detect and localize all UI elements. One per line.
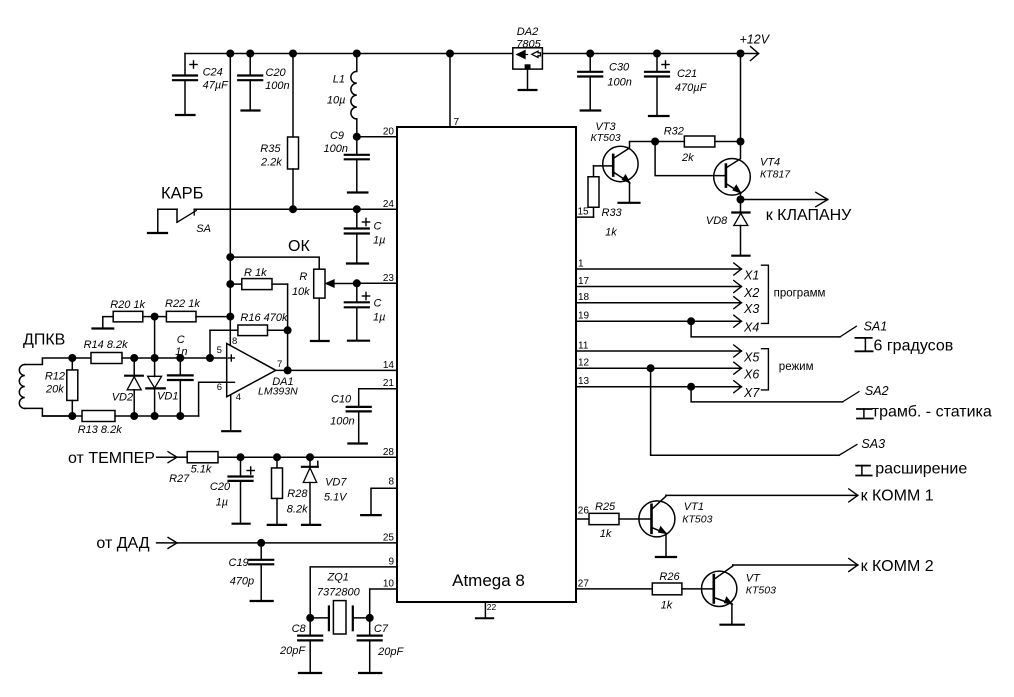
- resistor R12 20k: [45, 358, 78, 416]
- svg-text:5.1k: 5.1k: [191, 464, 212, 476]
- wire pin 22: [484, 602, 486, 618]
- svg-text:1µ: 1µ: [373, 312, 385, 324]
- capacitor C 1µ pin23 lower: [348, 298, 385, 341]
- svg-text:C20: C20: [210, 481, 231, 493]
- switch SA2: [687, 383, 888, 419]
- label +12V: [740, 33, 771, 61]
- svg-text:25: 25: [383, 533, 395, 544]
- label от ДАД: [96, 535, 149, 552]
- ground pin 8: [361, 514, 381, 516]
- resistor R14 8.2k: [72, 339, 227, 364]
- svg-text:C30: C30: [609, 62, 630, 74]
- switch SA3: [647, 364, 885, 475]
- label X5: [743, 351, 759, 365]
- svg-text:R28: R28: [287, 488, 308, 500]
- svg-text:X2: X2: [743, 286, 759, 300]
- svg-text:C9: C9: [330, 130, 344, 142]
- svg-text:100n: 100n: [324, 143, 348, 155]
- svg-text:X4: X4: [743, 321, 759, 335]
- svg-text:18: 18: [578, 292, 590, 303]
- pin 19 label: [578, 311, 590, 322]
- resistor R25 1k: [589, 501, 652, 540]
- svg-text:R26: R26: [659, 571, 680, 583]
- diode VD1: [146, 376, 178, 416]
- wire pin 9: [310, 567, 397, 618]
- svg-text:от ДАД: от ДАД: [96, 535, 149, 552]
- bracket программ: [762, 265, 769, 323]
- switch SA1: [687, 317, 887, 351]
- svg-text:13: 13: [578, 376, 590, 387]
- svg-text:режим: режим: [779, 361, 814, 373]
- svg-text:C24: C24: [203, 66, 223, 78]
- resistor R27 5.1k: [169, 452, 218, 485]
- node R12 top: [68, 354, 76, 362]
- svg-text:2.2k: 2.2k: [260, 157, 282, 169]
- pin 24 label: [383, 199, 395, 210]
- node SA line C24v: [353, 205, 361, 213]
- pin 20 label: [383, 127, 395, 138]
- svg-text:100n: 100n: [265, 80, 289, 92]
- svg-text:VT4: VT4: [760, 157, 780, 169]
- crystal ZQ1 7372800: [306, 572, 374, 635]
- svg-text:+12V: +12V: [740, 33, 771, 47]
- svg-text:к КОММ 2: к КОММ 2: [861, 558, 934, 575]
- transistor VT KT503: [702, 565, 777, 624]
- svg-text:X7: X7: [743, 386, 760, 400]
- svg-text:VD7: VD7: [325, 477, 347, 489]
- svg-text:20k: 20k: [45, 384, 64, 396]
- regulator DA2 7805: [513, 26, 543, 69]
- svg-text:28: 28: [383, 447, 395, 458]
- node VD1 top: [151, 354, 159, 362]
- svg-text:Atmega 8: Atmega 8: [452, 571, 525, 590]
- capacitor C21 470µF: [645, 54, 708, 117]
- svg-text:R12: R12: [45, 371, 65, 383]
- svg-text:ОК: ОК: [288, 238, 310, 255]
- pin 25 label: [383, 533, 395, 544]
- svg-text:11: 11: [578, 341, 589, 352]
- svg-text:от ТЕМПЕР: от ТЕМПЕР: [68, 450, 155, 467]
- wire pin 13 to X7: [576, 381, 741, 393]
- pin 13 label: [578, 376, 590, 387]
- resistor R22 1k: [155, 298, 231, 322]
- ground pin 22: [476, 617, 493, 619]
- svg-text:X6: X6: [743, 368, 759, 382]
- wire pin 7 Vcc: [449, 54, 451, 128]
- svg-text:1k: 1k: [605, 227, 617, 239]
- node R32 left: [651, 138, 659, 146]
- inductor L1 10µ: [327, 54, 357, 137]
- svg-text:20: 20: [383, 127, 395, 138]
- svg-text:6 градусов: 6 градусов: [874, 338, 954, 355]
- ground op-amp: [222, 430, 240, 432]
- svg-text:1k: 1k: [600, 528, 612, 540]
- label ДПКВ: [23, 332, 65, 349]
- svg-text:SA2: SA2: [865, 384, 889, 398]
- diode VD2: [112, 358, 143, 416]
- wire pin 27: [576, 588, 652, 590]
- svg-text:2k: 2k: [681, 152, 694, 164]
- svg-text:R25: R25: [595, 501, 616, 513]
- node C19 top: [257, 539, 265, 547]
- svg-text:17: 17: [578, 276, 590, 287]
- pin 28 label: [383, 447, 395, 458]
- ground VT1 emitter: [656, 556, 676, 558]
- wire to valve: [741, 192, 828, 206]
- svg-text:VT: VT: [746, 573, 761, 585]
- wire output to pin 14: [276, 369, 397, 371]
- label X7: [743, 386, 760, 400]
- svg-text:R22 1k: R22 1k: [165, 298, 200, 310]
- svg-text:КТ503: КТ503: [746, 585, 776, 597]
- svg-text:5: 5: [217, 345, 222, 356]
- svg-text:7805: 7805: [516, 38, 541, 50]
- svg-text:R33: R33: [602, 207, 623, 219]
- transistor VT3 KT503: [591, 121, 656, 202]
- op-amp DA1 LM393N: [217, 336, 299, 403]
- capacitor C9 100n: [324, 130, 369, 193]
- svg-text:8.2k: 8.2k: [287, 504, 308, 516]
- wire R20R22 down to VD1: [154, 317, 156, 376]
- resistor R32 2k: [655, 126, 740, 165]
- wire pin 1 to X1: [576, 263, 741, 275]
- wire pin 12 to X6: [576, 362, 741, 374]
- svg-text:47µF: 47µF: [203, 80, 230, 92]
- label к КОММ 1: [861, 488, 934, 505]
- svg-text:VT1: VT1: [684, 501, 704, 513]
- label расширение: [875, 461, 967, 478]
- pin 11 label: [578, 341, 589, 352]
- svg-text:12: 12: [578, 358, 590, 369]
- svg-text:SA: SA: [196, 223, 211, 235]
- wire +5V/+12V top rail: [185, 53, 759, 55]
- svg-text:24: 24: [383, 199, 395, 210]
- wire pin 11 to X5: [576, 345, 741, 357]
- node R12 bottom: [68, 412, 76, 420]
- capacitor C19 470p: [229, 543, 274, 601]
- capacitor C20 1µ: [210, 457, 254, 524]
- svg-text:10k: 10k: [292, 286, 310, 298]
- node C1n top: [176, 354, 184, 362]
- capacitor C24: [173, 54, 229, 116]
- pin 14 label: [383, 360, 395, 371]
- wire +5V vertical to op-amp: [229, 54, 231, 346]
- svg-text:КТ503: КТ503: [682, 513, 712, 525]
- ground VT emitter: [721, 624, 744, 626]
- wire pin 21: [359, 389, 397, 406]
- transistor VT4 KT817: [655, 142, 791, 200]
- resistor R26 1k: [652, 571, 714, 612]
- wire pin 19 to X4: [576, 315, 741, 327]
- svg-text:10: 10: [383, 579, 395, 590]
- svg-text:C: C: [177, 334, 185, 346]
- label режим: [779, 361, 814, 373]
- svg-text:КТ503: КТ503: [591, 132, 621, 144]
- node VD1 bottom: [151, 412, 159, 420]
- svg-text:7372800: 7372800: [317, 587, 361, 599]
- pin 9 label: [388, 556, 394, 567]
- svg-text:470µF: 470µF: [675, 82, 708, 94]
- svg-text:R14 8.2k: R14 8.2k: [84, 339, 129, 351]
- wire SA to pin 24: [194, 208, 397, 210]
- node VT4 emitter: [737, 196, 745, 204]
- resistor R16 470k: [210, 312, 288, 358]
- node VD2 bottom: [130, 412, 138, 420]
- svg-text:R13 8.2k: R13 8.2k: [78, 424, 123, 436]
- wire от ДАД: [157, 537, 397, 548]
- mcu DD1 Atmega 8: [397, 127, 576, 602]
- svg-text:C: C: [374, 298, 382, 310]
- svg-text:27: 27: [578, 578, 590, 589]
- resistor R33 1k: [576, 166, 623, 239]
- svg-text:C10: C10: [331, 394, 352, 406]
- svg-text:DA2: DA2: [517, 26, 538, 38]
- svg-text:КАРБ: КАРБ: [161, 185, 203, 203]
- label от ТЕМПЕР: [68, 450, 155, 467]
- svg-text:X5: X5: [743, 351, 759, 365]
- switch SA: [148, 209, 211, 235]
- svg-text:20pF: 20pF: [279, 645, 306, 657]
- svg-text:X3: X3: [743, 302, 759, 316]
- svg-text:1k: 1k: [661, 600, 673, 612]
- svg-text:VD8: VD8: [706, 215, 728, 227]
- wire +12V branch: [740, 54, 742, 142]
- wire to КОММ2: [733, 559, 858, 572]
- node R16 right: [284, 326, 292, 334]
- wire pin 23: [353, 279, 397, 287]
- wire -input: [199, 382, 227, 416]
- svg-text:VD2: VD2: [112, 392, 133, 404]
- label программ: [774, 288, 826, 300]
- pin 27 label: [578, 578, 590, 589]
- capacitor C10 100n: [330, 394, 371, 444]
- svg-text:100n: 100n: [607, 77, 631, 89]
- pin 23 label: [383, 273, 395, 284]
- ground VT3 emitter: [619, 202, 640, 204]
- svg-text:C19: C19: [229, 557, 249, 569]
- svg-text:1µ: 1µ: [216, 497, 228, 509]
- svg-text:7: 7: [277, 359, 282, 370]
- svg-text:1: 1: [578, 259, 584, 270]
- svg-text:470p: 470p: [230, 576, 254, 588]
- node R28 top: [273, 453, 281, 461]
- svg-text:22: 22: [487, 602, 497, 612]
- svg-text:15: 15: [578, 207, 590, 218]
- pin 18 label: [578, 292, 590, 303]
- capacitor C 1µ at pin 23: [345, 283, 370, 307]
- svg-text:VD1: VD1: [157, 391, 178, 403]
- svg-text:R20 1k: R20 1k: [110, 299, 145, 311]
- bracket режим: [762, 349, 769, 390]
- pin 7 label: [454, 117, 460, 128]
- svg-text:R 1k: R 1k: [244, 267, 267, 279]
- node R20/R22 junction: [151, 313, 159, 321]
- diode VD8: [706, 200, 750, 256]
- svg-text:к КОММ 1: к КОММ 1: [861, 488, 934, 505]
- svg-text:23: 23: [383, 273, 395, 284]
- svg-text:ДПКВ: ДПКВ: [23, 332, 65, 349]
- wire pin 20: [353, 133, 397, 141]
- svg-text:R27: R27: [169, 473, 190, 485]
- svg-text:9: 9: [388, 556, 394, 567]
- resistor R13 8.2k: [42, 411, 198, 437]
- svg-text:C21: C21: [677, 68, 697, 80]
- node rail junction pin7: [446, 50, 454, 58]
- svg-text:R32: R32: [664, 126, 684, 138]
- node SA line R35: [289, 205, 297, 213]
- label X6: [743, 368, 759, 382]
- resistor R 1k: [230, 267, 287, 290]
- svg-text:6: 6: [217, 382, 222, 393]
- zener VD7 5.1V: [302, 457, 348, 525]
- pin 1 label: [578, 259, 584, 270]
- svg-text:R16 470k: R16 470k: [240, 312, 288, 324]
- node rail junction L1: [353, 50, 361, 58]
- label к КЛАПАНУ: [766, 207, 852, 224]
- node R 1k left: [226, 280, 234, 288]
- svg-text:КТ817: КТ817: [760, 169, 791, 181]
- label трамб. - статика: [872, 404, 992, 421]
- capacitor C 1n: [168, 334, 193, 416]
- svg-text:8: 8: [388, 476, 394, 487]
- wire pin 17 to X2: [576, 281, 741, 293]
- svg-text:ZQ1: ZQ1: [327, 572, 349, 584]
- label X4: [743, 321, 759, 335]
- svg-text:программ: программ: [774, 288, 826, 300]
- pin 26 label: [578, 506, 590, 517]
- pin 8 label: [388, 476, 394, 487]
- svg-text:расширение: расширение: [875, 461, 967, 478]
- wire to КОММ1: [666, 489, 858, 502]
- node R22/R20/pin8: [226, 313, 234, 321]
- label КАРБ: [161, 185, 203, 203]
- node VD7 top: [306, 453, 314, 461]
- node rail junction C30: [586, 50, 594, 58]
- svg-text:C7: C7: [374, 623, 389, 635]
- svg-text:21: 21: [383, 378, 395, 389]
- svg-text:5.1V: 5.1V: [324, 492, 348, 504]
- label X3: [743, 302, 759, 316]
- node rail junction C21: [653, 50, 661, 58]
- capacitor C 1µ at pin 24: [345, 209, 386, 263]
- node C1n bottom: [176, 412, 184, 420]
- wire pin 26: [576, 518, 589, 520]
- svg-text:R35: R35: [260, 143, 281, 155]
- wire pin 18 to X3: [576, 297, 741, 309]
- svg-text:8: 8: [232, 336, 237, 347]
- wire R1k to output: [287, 284, 289, 370]
- svg-text:L1: L1: [333, 74, 345, 86]
- node R32 right: [737, 138, 745, 146]
- node rail junction +12V: [737, 50, 745, 58]
- svg-text:14: 14: [383, 360, 395, 371]
- capacitor C30 100n: [578, 54, 632, 111]
- node rail junction C20: [246, 50, 254, 58]
- label X2: [743, 286, 759, 300]
- svg-text:C20: C20: [266, 67, 287, 79]
- svg-text:C: C: [374, 221, 382, 233]
- pin 17 label: [578, 276, 590, 287]
- svg-text:26: 26: [578, 506, 590, 517]
- inductor ДПКВ pickup coil: [19, 358, 71, 416]
- resistor R20 1k: [93, 299, 155, 329]
- pin 21 label: [383, 378, 395, 389]
- label ОК: [288, 238, 310, 255]
- svg-text:трамб. - статика: трамб. - статика: [872, 404, 992, 421]
- node rail junction C24/SA vertical: [226, 50, 234, 58]
- svg-text:C8: C8: [292, 623, 307, 635]
- capacitor C8 20pF: [279, 618, 322, 673]
- node output junction: [284, 366, 292, 374]
- wire pin 8: [371, 488, 397, 515]
- potentiometer R 10k: [292, 269, 357, 341]
- svg-text:R: R: [299, 271, 307, 283]
- wire OK to pot: [230, 257, 319, 269]
- svg-text:1µ: 1µ: [373, 235, 385, 247]
- node rail junction R35: [289, 50, 297, 58]
- resistor R28 8.2k: [268, 457, 309, 525]
- transistor VT1 KT503: [639, 495, 713, 556]
- svg-text:100n: 100n: [330, 416, 354, 428]
- pin 12 label: [578, 358, 590, 369]
- svg-text:X1: X1: [743, 269, 759, 283]
- node VD2 top: [130, 354, 138, 362]
- pin 10 label: [383, 579, 395, 590]
- label к КОММ 2: [861, 558, 934, 575]
- resistor R35 2.2k: [260, 54, 299, 210]
- capacitor C7 20pF: [358, 618, 405, 673]
- wire от ТЕМПЕР: [157, 452, 397, 463]
- svg-text:к КЛАПАНУ: к КЛАПАНУ: [766, 207, 852, 224]
- svg-text:SA1: SA1: [864, 320, 888, 334]
- label 6 градусов: [874, 338, 954, 355]
- ground DA2: [519, 70, 537, 90]
- node OK line: [226, 253, 234, 261]
- svg-text:1n: 1n: [175, 346, 187, 358]
- pin 15 label: [578, 207, 590, 218]
- wire op-amp pin4: [230, 395, 232, 431]
- label X1: [743, 269, 759, 283]
- svg-text:19: 19: [578, 311, 590, 322]
- svg-text:4: 4: [236, 392, 241, 403]
- svg-text:SA3: SA3: [861, 437, 885, 451]
- svg-text:10µ: 10µ: [327, 95, 346, 107]
- ground VD8: [732, 255, 749, 257]
- pin 22 label: [487, 602, 497, 612]
- svg-text:20pF: 20pF: [377, 646, 404, 658]
- capacitor C20 100n: [238, 54, 289, 111]
- svg-text:LM393N: LM393N: [258, 386, 298, 398]
- wire pin 10: [370, 589, 397, 618]
- node C20 top: [237, 453, 245, 461]
- node R16 to +input: [206, 354, 214, 362]
